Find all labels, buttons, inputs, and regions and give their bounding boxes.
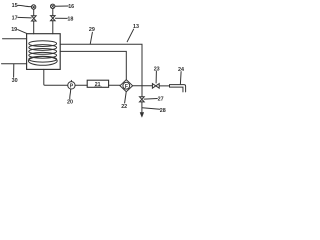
wire box 21 to flowmeter bbox=[109, 84, 120, 86]
svg-text:22: 22 bbox=[121, 104, 127, 110]
leader 24 bbox=[179, 72, 182, 84]
leader 13 bbox=[127, 29, 133, 42]
wire stem 18-tank bbox=[52, 21, 54, 34]
leader 29 bbox=[90, 32, 92, 43]
wire stem 16-18 bbox=[52, 9, 54, 16]
leader 30 bbox=[13, 64, 15, 77]
leader 23 bbox=[155, 71, 157, 83]
svg-text:21: 21 bbox=[95, 82, 101, 88]
leader 22 bbox=[125, 92, 127, 103]
svg-text:30: 30 bbox=[12, 78, 18, 84]
tank 19 bbox=[27, 34, 61, 70]
svg-text:18: 18 bbox=[67, 16, 73, 22]
wire pump to box 21 bbox=[75, 84, 87, 86]
tank outlet wire to pump bbox=[44, 69, 68, 85]
wire flowmeter to valve 23 bbox=[133, 85, 153, 87]
valve 23 bbox=[152, 84, 159, 89]
heating coil bbox=[28, 41, 57, 66]
inlet wire upper-left bbox=[3, 38, 27, 40]
svg-text:28: 28 bbox=[160, 108, 166, 114]
svg-text:F: F bbox=[125, 84, 128, 90]
svg-text:15: 15 bbox=[12, 3, 18, 9]
leader 28 bbox=[142, 108, 160, 110]
valve 18 bbox=[51, 16, 56, 21]
leader 15 bbox=[18, 5, 32, 6]
wire stem 17-tank bbox=[33, 21, 35, 34]
drain wire with arrow 28 bbox=[141, 102, 143, 113]
leader 17 bbox=[18, 16, 32, 19]
pipe 13 (outer) bbox=[60, 44, 142, 97]
arrowhead bbox=[140, 113, 144, 118]
inlet wire 30 bbox=[2, 63, 27, 65]
leader 18 bbox=[55, 17, 67, 19]
wire stem 15-17 bbox=[33, 9, 35, 16]
leader 19 bbox=[18, 30, 27, 34]
svg-text:27: 27 bbox=[158, 96, 164, 102]
svg-text:20: 20 bbox=[67, 100, 73, 106]
leader 16 bbox=[55, 5, 68, 7]
leader 20 bbox=[69, 89, 72, 99]
svg-text:16: 16 bbox=[68, 4, 74, 10]
flow meter F 22 bbox=[120, 80, 133, 92]
svg-text:19: 19 bbox=[11, 27, 17, 33]
nozzle 24 bbox=[170, 85, 186, 92]
pump P 20 bbox=[68, 80, 75, 89]
box 21 bbox=[87, 80, 108, 88]
valve 27 bbox=[140, 97, 145, 102]
gauge circle 16 bbox=[51, 4, 55, 8]
svg-text:17: 17 bbox=[12, 15, 18, 21]
gauge circle 15 bbox=[31, 5, 35, 9]
leader 27 bbox=[144, 98, 157, 101]
svg-text:29: 29 bbox=[89, 27, 95, 33]
valve 17 bbox=[32, 16, 37, 21]
wire valve 23 to nozzle bbox=[159, 85, 169, 87]
pipe 29 (inner) bbox=[60, 51, 126, 79]
